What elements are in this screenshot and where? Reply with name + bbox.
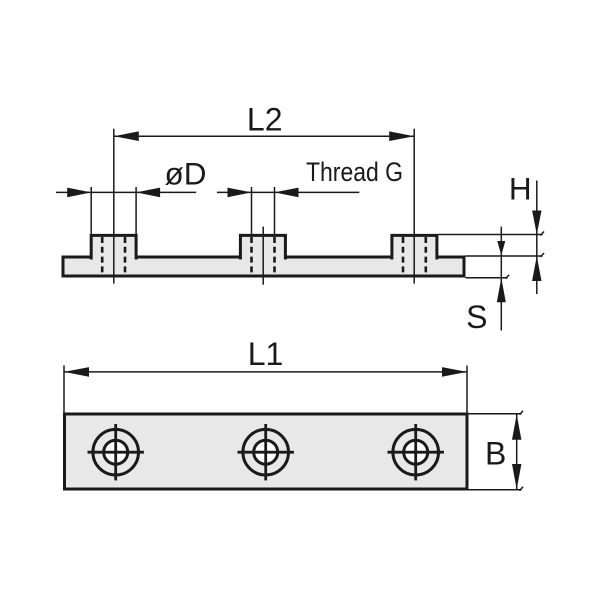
svg-text:L2: L2 — [247, 101, 283, 137]
svg-text:S: S — [466, 299, 487, 335]
svg-text:Thread G: Thread G — [306, 157, 403, 187]
svg-text:L1: L1 — [248, 336, 284, 372]
svg-text:øD: øD — [165, 155, 207, 191]
svg-text:H: H — [509, 171, 532, 207]
svg-text:B: B — [485, 435, 506, 471]
